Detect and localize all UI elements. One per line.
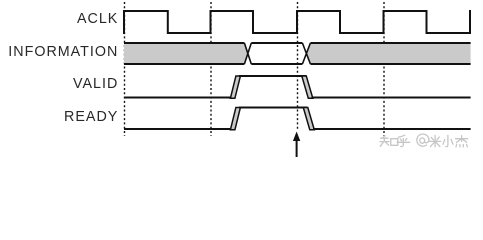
signal label INFORMATION — [8, 44, 118, 60]
glyph 杰 — [456, 136, 468, 147]
VALID low line left — [124, 97, 232, 99]
READY rising transition — [230, 108, 240, 130]
INFORMATION bus bottom line — [124, 63, 471, 65]
glyph 米 — [430, 135, 441, 146]
dotted line T2 — [210, 2, 212, 136]
glyph 知 — [380, 136, 389, 147]
READY low line left — [124, 128, 232, 130]
watermark 知乎 @米小杰 — [380, 134, 468, 147]
VALID rising transition — [230, 76, 240, 98]
VALID high line — [239, 75, 306, 77]
signal label READY — [64, 109, 118, 125]
signal label VALID — [73, 76, 118, 92]
INFORMATION bus X crossing left — [244, 43, 251, 64]
INFORMATION bus gray fill left segment — [124, 43, 248, 64]
glyph @ — [417, 134, 429, 146]
glyph 乎 — [397, 135, 410, 146]
INFORMATION bus gray fill right segment — [306, 43, 470, 64]
INFORMATION bus top line — [124, 42, 471, 44]
dotted line T4 — [383, 2, 385, 136]
signal label ACLK — [77, 11, 118, 27]
READY high line — [239, 107, 307, 109]
INFORMATION bus X crossing right — [302, 43, 310, 64]
ACLK waveform — [124, 10, 470, 34]
READY low line right — [313, 128, 471, 130]
VALID falling transition — [302, 76, 313, 98]
dotted line T1 — [124, 2, 126, 136]
dotted line T3 — [297, 2, 299, 131]
event arrow — [293, 132, 300, 158]
glyph 小 — [443, 135, 453, 146]
READY falling transition — [303, 108, 314, 130]
VALID low line right — [312, 97, 471, 99]
